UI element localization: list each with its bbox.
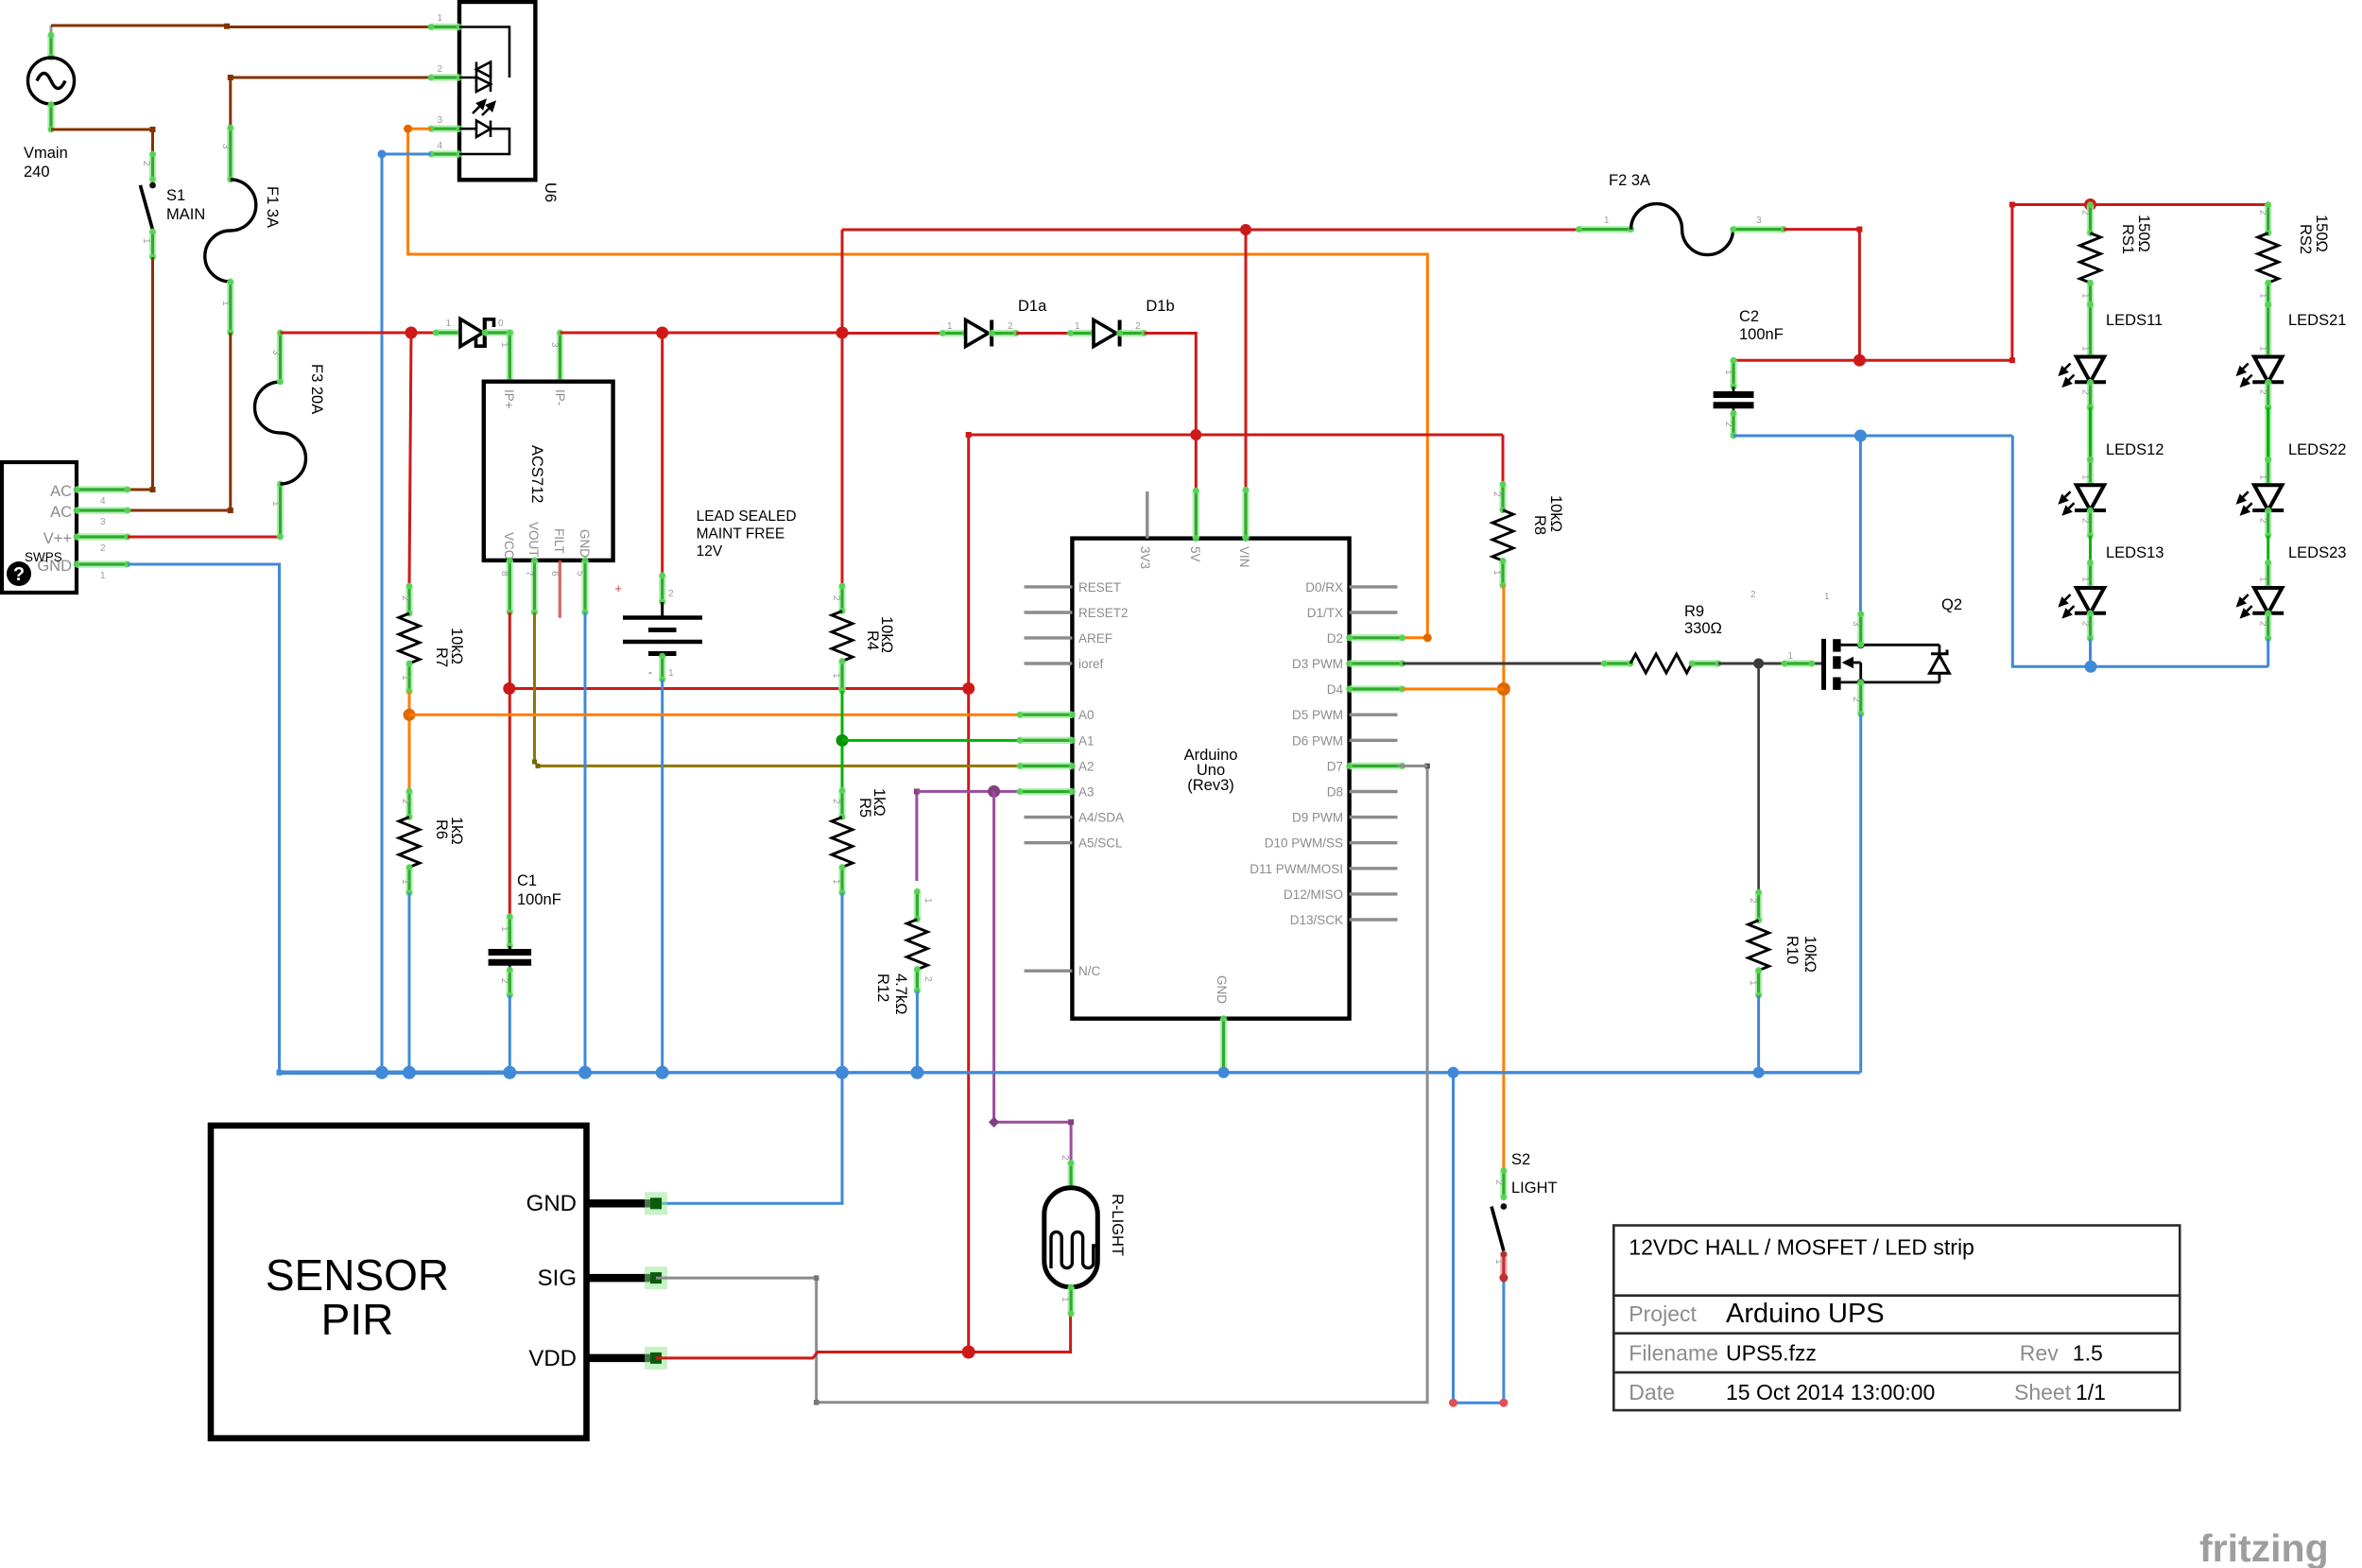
svg-text:VCC: VCC bbox=[502, 532, 516, 560]
5V rail right bbox=[969, 434, 1503, 437]
wire battery + bbox=[661, 333, 664, 576]
wire down to VDD node bbox=[967, 689, 970, 1353]
top rail to F2 bbox=[842, 229, 1578, 232]
svg-text:D3 PWM: D3 PWM bbox=[1292, 657, 1343, 671]
svg-text:2: 2 bbox=[831, 595, 841, 601]
red rail to Arduino column bbox=[509, 687, 969, 690]
svg-text:1: 1 bbox=[1493, 1259, 1504, 1265]
svg-text:1: 1 bbox=[1491, 570, 1502, 576]
Arduino GND pin bbox=[1220, 1015, 1227, 1076]
svg-text:R10: R10 bbox=[1784, 936, 1801, 964]
svg-text:D0/RX: D0/RX bbox=[1305, 580, 1343, 594]
svg-text:12V: 12V bbox=[697, 543, 723, 560]
junction LED column 1 bbox=[2085, 661, 2097, 673]
Arduino pin N/C bbox=[1025, 969, 1073, 972]
Arduino pin A5/SCL bbox=[1025, 841, 1073, 844]
resistor RS2 150ohm bbox=[2265, 201, 2271, 236]
wire C2 to LED feed corner bbox=[1733, 359, 2012, 362]
junction 5V stub bbox=[1190, 429, 1201, 440]
svg-text:1: 1 bbox=[499, 926, 509, 932]
LED LEDS11 bbox=[2075, 357, 2106, 383]
LED LEDS13 bbox=[2075, 588, 2106, 613]
svg-text:2: 2 bbox=[499, 978, 509, 984]
bus left end bbox=[277, 1070, 283, 1076]
svg-text:R9: R9 bbox=[1684, 603, 1704, 620]
svg-text:Vmain: Vmain bbox=[24, 145, 68, 162]
svg-text:AC: AC bbox=[50, 483, 72, 500]
svg-text:1: 1 bbox=[1723, 370, 1733, 375]
wire SWPS GND down to ground bus bbox=[128, 564, 280, 1073]
svg-text:D11 PWM/MOSI: D11 PWM/MOSI bbox=[1250, 862, 1343, 876]
LED LEDS22 bbox=[2252, 485, 2284, 510]
LED string at x=2211.5 bbox=[2087, 302, 2094, 360]
svg-text:Project: Project bbox=[1629, 1301, 1697, 1326]
svg-text:2: 2 bbox=[1491, 491, 1502, 497]
wire Vmain- to S1 pin2 bbox=[51, 129, 153, 154]
wire S1 pin1 to SWPS AC pin4 bbox=[128, 257, 153, 490]
svg-text:2: 2 bbox=[922, 976, 933, 982]
Arduino pin AREF bbox=[1025, 636, 1073, 639]
battery BT1 lead sealed 12V bbox=[623, 572, 702, 682]
svg-text:1: 1 bbox=[2258, 293, 2268, 299]
Arduino pin D4 bbox=[1346, 686, 1405, 693]
resistor R9 330 bbox=[1601, 661, 1634, 667]
svg-text:SIG: SIG bbox=[538, 1266, 577, 1291]
svg-text:LEDS12: LEDS12 bbox=[2106, 441, 2164, 458]
junction A1 tap bbox=[836, 734, 849, 747]
Arduino pin D12/MISO bbox=[1350, 892, 1398, 895]
junction D4 bbox=[1497, 682, 1510, 696]
svg-text:GND: GND bbox=[578, 529, 592, 558]
Arduino pin A2 bbox=[1017, 763, 1076, 769]
wire R12 to ground bus bbox=[916, 991, 919, 1073]
junction VDD node bbox=[962, 1346, 975, 1359]
svg-text:ioref: ioref bbox=[1078, 657, 1104, 671]
svg-text:1: 1 bbox=[445, 319, 451, 329]
zener diode D2s bbox=[433, 318, 514, 348]
svg-text:1.5: 1.5 bbox=[2073, 1341, 2103, 1366]
wire ACS VOUT to Arduino A2 bbox=[535, 612, 1020, 766]
Q2 pin legs bbox=[1857, 611, 1864, 648]
svg-text:Q2: Q2 bbox=[1941, 596, 1962, 613]
wire up to 5V rail bbox=[967, 435, 970, 689]
junction RS1 bbox=[2084, 198, 2096, 211]
svg-text:FILT: FILT bbox=[552, 528, 566, 554]
svg-text:Rev: Rev bbox=[2020, 1341, 2059, 1366]
svg-text:U6: U6 bbox=[542, 182, 559, 202]
junction bbox=[962, 682, 974, 695]
svg-text:D2: D2 bbox=[1327, 631, 1343, 646]
Arduino pin D9 PWM bbox=[1350, 816, 1398, 818]
svg-text:1: 1 bbox=[2258, 577, 2268, 582]
svg-text:1: 1 bbox=[1604, 215, 1610, 226]
wire R10 to ground bus bbox=[1757, 995, 1760, 1073]
svg-text:D6 PWM: D6 PWM bbox=[1292, 733, 1343, 748]
svg-text:Filename: Filename bbox=[1629, 1341, 1718, 1366]
svg-text:1: 1 bbox=[831, 673, 841, 679]
svg-text:D1a: D1a bbox=[1018, 298, 1047, 315]
switch S2 LIGHT bbox=[1491, 1167, 1507, 1278]
U6 light arrows bbox=[473, 101, 494, 116]
LED LEDS12 bbox=[2075, 485, 2106, 510]
svg-text:4: 4 bbox=[100, 496, 106, 507]
Arduino pin D3 PWM bbox=[1346, 661, 1405, 667]
svg-text:D9 PWM: D9 PWM bbox=[1292, 811, 1343, 825]
svg-text:240: 240 bbox=[24, 164, 50, 181]
svg-text:F2 3A: F2 3A bbox=[1609, 172, 1650, 189]
wire Arduino D3 to R9 bbox=[1403, 663, 1604, 665]
svg-text:R12: R12 bbox=[874, 974, 891, 1002]
svg-text:R8: R8 bbox=[1531, 515, 1548, 535]
svg-text:C1: C1 bbox=[517, 872, 537, 889]
svg-text:5V: 5V bbox=[1188, 546, 1202, 562]
PIR pin VDD bbox=[587, 1354, 657, 1363]
svg-text:1: 1 bbox=[2258, 474, 2268, 480]
wire IP- up / right to battery bbox=[557, 330, 563, 386]
svg-text:VIN: VIN bbox=[1237, 546, 1251, 568]
svg-text:1: 1 bbox=[831, 879, 841, 885]
svg-text:100nF: 100nF bbox=[517, 891, 561, 908]
svg-text:1: 1 bbox=[2258, 346, 2268, 352]
wire junction down to R7 bbox=[409, 333, 411, 586]
svg-text:A5/SCL: A5/SCL bbox=[1078, 836, 1123, 851]
Arduino pin D8 bbox=[1350, 790, 1398, 793]
5V stub bbox=[1195, 435, 1198, 491]
svg-text:2: 2 bbox=[2258, 518, 2268, 524]
svg-text:S1: S1 bbox=[166, 187, 185, 204]
wire R5 to ground bus and PIR GND bbox=[656, 893, 842, 1204]
svg-text:3: 3 bbox=[437, 115, 442, 126]
wire to Arduino D4 bbox=[1403, 688, 1504, 691]
svg-text:2: 2 bbox=[1723, 422, 1733, 427]
svg-text:D13/SCK: D13/SCK bbox=[1290, 913, 1343, 927]
resistor R4 10k bbox=[839, 583, 846, 614]
svg-text:A1: A1 bbox=[1078, 733, 1095, 748]
svg-text:D10 PWM/SS: D10 PWM/SS bbox=[1265, 836, 1343, 851]
svg-text:2: 2 bbox=[2258, 210, 2268, 215]
svg-text:N/C: N/C bbox=[1078, 964, 1101, 978]
svg-text:1kΩ: 1kΩ bbox=[448, 817, 465, 845]
Arduino pin RESET bbox=[1025, 585, 1073, 588]
svg-text:GND: GND bbox=[526, 1191, 577, 1216]
svg-text:1: 1 bbox=[947, 321, 953, 332]
svg-text:2: 2 bbox=[2080, 210, 2091, 215]
svg-text:1: 1 bbox=[1787, 651, 1793, 662]
U6 internal photodiode bbox=[459, 121, 509, 155]
svg-text:A3: A3 bbox=[1078, 785, 1095, 800]
svg-text:1: 1 bbox=[437, 13, 442, 24]
LED return rail bbox=[2012, 436, 2091, 666]
svg-text:2: 2 bbox=[2080, 621, 2091, 627]
resistor R6 1k bbox=[406, 788, 413, 820]
svg-text:8: 8 bbox=[499, 571, 509, 577]
junction bbox=[405, 327, 418, 339]
capacitor C2 100nF bbox=[1731, 357, 1737, 390]
wire F1 pin1 to SWPS AC pin3 bbox=[128, 333, 231, 510]
AC source Vmain 240 bbox=[28, 26, 75, 132]
svg-text:2: 2 bbox=[437, 64, 442, 75]
wire R6 to ground bus bbox=[408, 893, 411, 1073]
wire down to R4 bbox=[841, 333, 844, 586]
Arduino pin A4/SDA bbox=[1025, 816, 1073, 818]
MOSFET Q2 bbox=[1824, 639, 1950, 690]
junction R4 column bbox=[836, 327, 849, 339]
wire to D1a bbox=[842, 332, 942, 335]
wire F2 to C2 rail bbox=[1784, 230, 1859, 361]
Arduino pin D1/TX bbox=[1350, 611, 1398, 613]
svg-text:0: 0 bbox=[498, 319, 504, 329]
wire U6 pin2 to F1 pin3 bbox=[231, 78, 431, 128]
Arduino pin D10 PWM/SS bbox=[1350, 841, 1398, 844]
resistor R8 10k bbox=[1500, 481, 1507, 513]
wire F3 pin3 to zener diode bbox=[281, 332, 437, 335]
svg-text:IP-: IP- bbox=[553, 389, 567, 405]
junction C2 bbox=[1853, 354, 1866, 367]
svg-text:AREF: AREF bbox=[1078, 631, 1112, 646]
svg-text:1: 1 bbox=[1748, 980, 1758, 986]
svg-text:VDD: VDD bbox=[528, 1346, 577, 1371]
svg-text:S2: S2 bbox=[1511, 1151, 1530, 1168]
svg-text:-: - bbox=[648, 665, 652, 679]
svg-text:R6: R6 bbox=[433, 819, 450, 839]
svg-text:ACS712: ACS712 bbox=[528, 445, 545, 503]
svg-text:10kΩ: 10kΩ bbox=[448, 628, 465, 664]
svg-text:LIGHT: LIGHT bbox=[1511, 1180, 1558, 1197]
U6 internal triac bbox=[459, 27, 509, 93]
SWPS help icon bbox=[7, 561, 31, 586]
svg-text:R-LIGHT: R-LIGHT bbox=[1109, 1194, 1126, 1256]
svg-text:1: 1 bbox=[668, 668, 674, 679]
ACS712 hall sensor box bbox=[484, 382, 613, 560]
wire PIR VDD red bbox=[656, 1314, 1071, 1358]
svg-text:R7: R7 bbox=[433, 647, 450, 667]
fuse F3 20A bbox=[255, 330, 306, 541]
svg-text:MAINT FREE: MAINT FREE bbox=[697, 526, 785, 543]
wire Q2 drain drop bbox=[1859, 436, 1862, 614]
svg-text:RESET2: RESET2 bbox=[1078, 606, 1129, 620]
svg-text:SWPS: SWPS bbox=[25, 550, 62, 564]
svg-text:1: 1 bbox=[499, 342, 509, 348]
wire ACS VCC to C1 and 5V rail bbox=[509, 612, 511, 917]
svg-text:A0: A0 bbox=[1078, 708, 1095, 722]
Arduino pin D7 bbox=[1346, 763, 1405, 769]
wire C2 pin2 blue to LED return bbox=[1733, 435, 2012, 438]
wire 5V rail to R8 bbox=[1502, 435, 1505, 484]
svg-text:RS2: RS2 bbox=[2297, 224, 2314, 254]
svg-text:10kΩ: 10kΩ bbox=[1547, 495, 1564, 532]
wire LED string bottom to blue return bbox=[2089, 639, 2092, 667]
LED LEDS23 bbox=[2252, 588, 2284, 613]
svg-text:LEDS23: LEDS23 bbox=[2288, 544, 2346, 561]
Arduino pin D13/SCK bbox=[1350, 918, 1398, 921]
svg-text:LEDS13: LEDS13 bbox=[2106, 544, 2164, 561]
junction A0 tap bbox=[404, 709, 416, 721]
ACS712 bottom pin legs bbox=[507, 558, 513, 616]
svg-text:UPS5.fzz: UPS5.fzz bbox=[1726, 1341, 1817, 1366]
PIR pin GND bbox=[587, 1199, 657, 1208]
wire Arduino D7 stub to gray bbox=[1398, 765, 1428, 767]
svg-text:1: 1 bbox=[2080, 474, 2091, 480]
wire D1b down to 5V rail bbox=[1145, 334, 1197, 436]
LED LEDS21 bbox=[2252, 357, 2284, 383]
wire up to top rail bbox=[841, 230, 844, 333]
svg-text:10kΩ: 10kΩ bbox=[1802, 936, 1819, 973]
svg-text:Sheet: Sheet bbox=[2014, 1380, 2072, 1404]
svg-text:2: 2 bbox=[1748, 898, 1758, 904]
svg-text:1: 1 bbox=[400, 675, 410, 681]
wire PIR SIG to D7 bbox=[656, 766, 1427, 1402]
svg-text:2: 2 bbox=[141, 161, 151, 166]
svg-text:F3 20A: F3 20A bbox=[308, 364, 325, 414]
svg-text:Date: Date bbox=[1629, 1380, 1675, 1404]
PIR sensor box bbox=[211, 1126, 587, 1439]
svg-text:D8: D8 bbox=[1327, 785, 1343, 800]
Arduino pin A0 bbox=[1017, 712, 1076, 718]
wire S2 to ground bus bbox=[1454, 1073, 1504, 1403]
Arduino VIN pin bbox=[1243, 487, 1250, 542]
svg-text:LEDS21: LEDS21 bbox=[2288, 312, 2346, 329]
junction VIN drop bbox=[1240, 224, 1251, 235]
svg-text:F1 3A: F1 3A bbox=[264, 186, 281, 228]
svg-text:5: 5 bbox=[575, 571, 585, 577]
junction Q2 drain bbox=[1854, 430, 1867, 442]
svg-text:3V3: 3V3 bbox=[1138, 546, 1152, 569]
Arduino pin RESET2 bbox=[1025, 611, 1073, 613]
svg-text:100nF: 100nF bbox=[1739, 326, 1784, 343]
svg-text:150Ω: 150Ω bbox=[2135, 215, 2152, 252]
LED feed rail bbox=[2012, 205, 2268, 361]
svg-text:MAIN: MAIN bbox=[166, 206, 205, 223]
svg-text:V++: V++ bbox=[43, 530, 72, 547]
wire to Arduino A0 bbox=[409, 714, 1020, 716]
svg-text:3: 3 bbox=[1756, 215, 1762, 226]
Arduino pin D2 bbox=[1346, 634, 1405, 641]
svg-text:Arduino UPS: Arduino UPS bbox=[1726, 1299, 1885, 1329]
svg-text:15 Oct 2014 13:00:00: 15 Oct 2014 13:00:00 bbox=[1726, 1380, 1935, 1404]
wire U6 pin4 to ground bus bbox=[382, 154, 431, 1073]
svg-text:1: 1 bbox=[141, 238, 151, 244]
svg-text:+: + bbox=[614, 581, 622, 595]
svg-text:2: 2 bbox=[1493, 1180, 1504, 1185]
svg-text:D5 PWM: D5 PWM bbox=[1292, 708, 1343, 722]
title block bbox=[1613, 1226, 2180, 1411]
svg-text:3: 3 bbox=[270, 350, 281, 355]
svg-text:2: 2 bbox=[400, 595, 410, 601]
svg-text:2: 2 bbox=[2258, 389, 2268, 395]
wire zener out down to ACS IP+ bbox=[507, 330, 513, 386]
svg-text:1: 1 bbox=[1824, 592, 1830, 602]
svg-text:IP+: IP+ bbox=[502, 389, 516, 409]
Arduino pin ioref bbox=[1025, 662, 1073, 664]
svg-text:D1b: D1b bbox=[1146, 298, 1174, 315]
fuse F2 3A bbox=[1576, 204, 1787, 255]
LED string at x=2399.7 bbox=[2265, 302, 2271, 360]
power supply SWPS bbox=[2, 462, 77, 593]
resistor R5 1k bbox=[839, 787, 846, 820]
svg-text:(Rev3): (Rev3) bbox=[1187, 777, 1234, 794]
svg-text:2: 2 bbox=[1750, 590, 1756, 600]
wire R10 column bbox=[1757, 663, 1760, 892]
svg-text:2: 2 bbox=[400, 799, 410, 804]
svg-text:4.7kΩ: 4.7kΩ bbox=[892, 974, 909, 1015]
wire R9 to Q2 gate bbox=[1718, 663, 1823, 665]
wire battery - to ground bus bbox=[661, 680, 664, 1073]
resistor RS1 150ohm bbox=[2087, 201, 2094, 236]
Arduino pin D5 PWM bbox=[1350, 714, 1398, 716]
svg-text:10kΩ: 10kΩ bbox=[878, 616, 895, 653]
svg-text:1: 1 bbox=[270, 501, 281, 507]
capacitor C1 100nF bbox=[507, 913, 513, 949]
svg-text:2: 2 bbox=[2080, 518, 2091, 524]
wire R7 to R6 with A0 tap bbox=[408, 692, 411, 791]
svg-text:1: 1 bbox=[1060, 1297, 1070, 1302]
svg-text:3: 3 bbox=[549, 342, 560, 348]
wire ACS GND to ground bus bbox=[584, 612, 587, 1073]
svg-text:7: 7 bbox=[524, 571, 534, 577]
svg-text:2: 2 bbox=[1060, 1155, 1070, 1161]
switch S1 MAIN bbox=[140, 151, 156, 261]
svg-text:1kΩ: 1kΩ bbox=[871, 788, 888, 817]
svg-text:330Ω: 330Ω bbox=[1684, 620, 1722, 637]
U6 pin legs bbox=[428, 24, 463, 30]
wire R8 to D4 junction to S2 bbox=[1502, 585, 1505, 1170]
wire LED string bottom to blue return bbox=[2267, 639, 2269, 667]
svg-text:fritzing: fritzing bbox=[2199, 1526, 2329, 1568]
wire to Arduino A1 bbox=[842, 739, 1020, 742]
SWPS pin legs bbox=[74, 487, 131, 493]
Arduino 5V pin bbox=[1193, 488, 1199, 542]
svg-text:A2: A2 bbox=[1078, 759, 1095, 773]
svg-text:C2: C2 bbox=[1739, 308, 1759, 325]
svg-text:RESET: RESET bbox=[1078, 580, 1121, 594]
svg-text:3: 3 bbox=[100, 517, 106, 527]
svg-text:1: 1 bbox=[100, 571, 106, 581]
Arduino pin D0/RX bbox=[1350, 585, 1398, 588]
svg-text:GND: GND bbox=[1215, 975, 1229, 1004]
svg-text:2: 2 bbox=[2258, 621, 2268, 627]
svg-text:1: 1 bbox=[2080, 577, 2091, 582]
svg-text:1: 1 bbox=[400, 879, 410, 885]
wire A3 to R12 bbox=[915, 791, 918, 881]
wire R4 to R5 with A1 tap bbox=[841, 691, 844, 790]
svg-text:LEDS22: LEDS22 bbox=[2288, 441, 2346, 458]
svg-text:12VDC HALL / MOSFET / LED stri: 12VDC HALL / MOSFET / LED strip bbox=[1629, 1235, 1974, 1260]
svg-text:AC: AC bbox=[50, 504, 72, 521]
svg-text:PIR: PIR bbox=[321, 1295, 394, 1344]
svg-text:D7: D7 bbox=[1327, 759, 1343, 773]
svg-text:150Ω: 150Ω bbox=[2313, 215, 2330, 252]
svg-text:VOUT: VOUT bbox=[526, 522, 541, 558]
svg-text:2: 2 bbox=[1135, 321, 1141, 332]
svg-text:1: 1 bbox=[2080, 293, 2091, 299]
diode D1b bbox=[1067, 330, 1097, 336]
wire C1 to ground bus bbox=[509, 995, 511, 1073]
svg-text:1: 1 bbox=[922, 898, 933, 904]
svg-text:1/1: 1/1 bbox=[2076, 1380, 2106, 1404]
svg-text:2: 2 bbox=[668, 589, 674, 599]
wire SWPS V++ to F3 pin1 bbox=[128, 536, 281, 539]
junction battery+ bbox=[656, 327, 668, 339]
svg-text:LEAD SEALED: LEAD SEALED bbox=[697, 508, 797, 525]
svg-text:2: 2 bbox=[1851, 697, 1861, 702]
svg-text:RS1: RS1 bbox=[2119, 224, 2136, 254]
optocoupler U6 box bbox=[459, 2, 535, 180]
svg-text:?: ? bbox=[13, 564, 25, 585]
wire D1a to D1b bbox=[1016, 332, 1070, 335]
svg-text:4: 4 bbox=[437, 141, 442, 151]
svg-text:D1/TX: D1/TX bbox=[1307, 606, 1343, 620]
wire Q2 source to ground bus bbox=[1859, 715, 1862, 1073]
